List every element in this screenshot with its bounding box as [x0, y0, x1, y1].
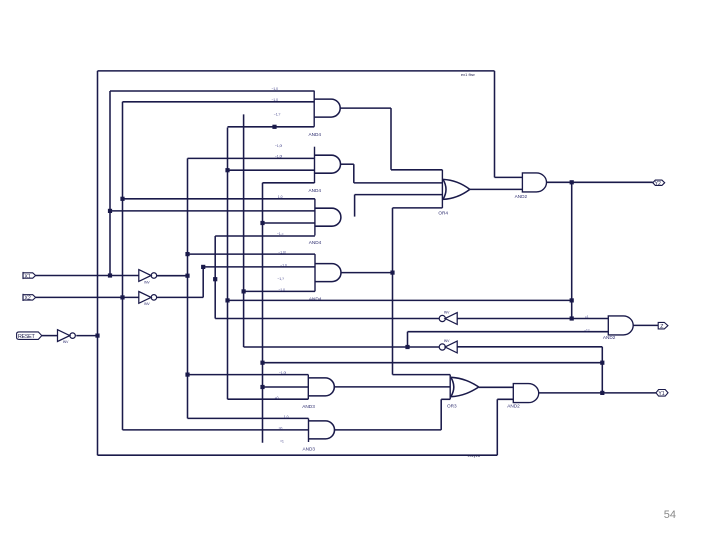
svg-text:=1: =1 [585, 315, 589, 319]
wire X2 to U3 pin1 [123, 198, 315, 200]
svg-text:Y2: Y2 [655, 181, 661, 187]
svg-text:AND2: AND2 [515, 194, 528, 199]
wire Y to U2 pin3 [228, 169, 315, 171]
svg-text:AND3: AND3 [302, 404, 315, 409]
svg-text:AND3: AND3 [303, 446, 316, 451]
wire Y1 to U3 pin3 [263, 222, 315, 224]
svg-text:ex1y1a: ex1y1a [468, 454, 481, 458]
junction X1 riser top branch [108, 209, 112, 213]
wire U1 output [340, 107, 391, 109]
junction X2' corner [201, 265, 205, 269]
page number [664, 509, 676, 521]
wire X2 port to INV-B [36, 296, 139, 298]
junction Y1 at feedback riser [600, 391, 604, 395]
wire X1' to U4 pin1 [188, 253, 316, 255]
junction U4 output at riser [390, 271, 394, 275]
svg-text:ex1 fbw: ex1 fbw [461, 72, 475, 77]
junction Y' tap on riser [213, 277, 217, 281]
output port Z [658, 322, 668, 330]
wire U5 output to OR3 pin2 [334, 386, 450, 388]
AND gate U9 (AND2, output Y2) [515, 173, 547, 199]
wire Z' left trunk [243, 114, 245, 347]
wire U6 output [335, 429, 442, 431]
wire X1' to U6 pin1 [188, 417, 309, 419]
wire X1 port to INV-A [36, 275, 139, 277]
wire U1 output drop [390, 108, 392, 170]
wire Y' riser [214, 236, 216, 319]
junction X1' to U5 [185, 373, 189, 377]
wire Y1 into INV-2 input [457, 346, 602, 348]
junction Y to U2 [225, 168, 229, 172]
svg-text:Y1: Y1 [658, 391, 664, 397]
junction X2 at riser base [120, 295, 124, 299]
junction Y mid at left riser [225, 298, 229, 302]
junction X1 at riser base [108, 273, 112, 277]
junction X1' at INV-A [185, 274, 189, 278]
wire Y1 cross run [263, 362, 603, 364]
wire to OR3 pin1 [393, 374, 451, 376]
svg-text:RESET: RESET [18, 334, 36, 340]
wire X2 to U1 pin2 [123, 101, 315, 103]
junction X2 to U3 [120, 197, 124, 201]
svg-text:~1,?: ~1,? [274, 112, 281, 116]
wire to OR4 pin4 [393, 207, 443, 209]
svg-text:INV: INV [144, 280, 150, 284]
output port Y1 [656, 390, 668, 398]
svg-text:~1=: ~1= [584, 328, 590, 332]
wire Y1 to U2 pin4 [263, 182, 315, 184]
wire X2' from INV-B [157, 296, 204, 298]
wire Z' to U10 pin2 [408, 331, 609, 333]
AND gate U10 (AND2, output Z) [603, 316, 633, 340]
wire Y1 to U5 pin2 [263, 386, 309, 388]
junction Y1 cross left end [260, 361, 264, 365]
svg-text:~1,0: ~1,0 [279, 288, 286, 292]
wire X2 riser [122, 102, 124, 430]
wire X1 to U3 pin2 [110, 210, 315, 212]
wire Y2 output [547, 181, 653, 183]
junction Z' to U4 [242, 289, 246, 293]
wire Y to U1 pin4 [228, 126, 315, 128]
wire Y1 feedback riser [601, 347, 603, 393]
wire RESET' bottom run [98, 454, 498, 456]
wire RESET port to inverter [42, 335, 58, 337]
wire RESET' inverter output [76, 335, 97, 337]
wire X1' from INV-A [157, 275, 188, 277]
svg-text:AND4: AND4 [309, 240, 322, 245]
svg-text:1,0: 1,0 [278, 195, 283, 199]
wire RESET' rise to U11 [496, 399, 498, 455]
wire stub near U3 output [354, 195, 356, 217]
wire U1 to OR4 pin1 [391, 169, 442, 171]
svg-text:1,0: 1,0 [284, 415, 289, 419]
junction Y1 cross at riser [600, 361, 604, 365]
AND gate U4 (AND4) [309, 254, 341, 302]
wire X2 to U6 pin2 [123, 429, 309, 431]
AND gate U5 (AND3) [302, 375, 334, 410]
wire Y feedback trunk [571, 182, 573, 319]
wire X1 riser [109, 91, 111, 276]
wire Y1 left trunk [262, 183, 264, 443]
wire X1' trunk [187, 158, 189, 418]
AND gate U6 (AND3) [303, 418, 335, 451]
wire U2 to OR4 pin2 [354, 182, 443, 184]
wire X2' to U4 pin2 [203, 266, 315, 268]
wire Y1 output [539, 392, 656, 394]
svg-text:=1: =1 [280, 440, 284, 444]
wire X2' riser [202, 267, 204, 298]
svg-text:OR3: OR3 [447, 404, 457, 409]
wire Z' from INV-2 [244, 346, 440, 348]
junction Y1 to U5 [260, 385, 264, 389]
wire U6 to OR3 pin3 [441, 398, 450, 400]
wire OR4 output to U9 pin2 [470, 188, 523, 190]
svg-text:=0: =0 [279, 426, 283, 430]
svg-text:~1,=: ~1,= [277, 232, 284, 236]
svg-text:X1: X1 [24, 274, 30, 280]
svg-text:~1,0: ~1,0 [272, 98, 279, 102]
junction Y at output [570, 180, 574, 184]
svg-text:INV: INV [444, 311, 450, 315]
wire Z' riser to U10 [407, 332, 409, 347]
svg-text:AND2: AND2 [603, 335, 616, 340]
junction Z' branch [405, 345, 409, 349]
wire U2 output drop [353, 164, 355, 183]
wire X1 to U1 pin1 [110, 90, 314, 92]
svg-text:~1,0: ~1,0 [272, 87, 279, 91]
OR gate U8 (OR3) [447, 375, 479, 409]
wire RESET' into U11 pin2 [497, 398, 513, 400]
junction Y1 to U3 [260, 221, 264, 225]
wire OR4pin4/OR3pin1 riser [392, 208, 394, 375]
AND gate U2 (AND4) [309, 147, 341, 193]
wire Y left riser [227, 128, 229, 400]
input port X2 [23, 294, 36, 302]
inverter INV-B (X2) [139, 292, 157, 307]
wire RESET' left trunk [97, 71, 99, 455]
wire RESET' into U9 pin1 [495, 176, 523, 178]
input port RESET [17, 332, 42, 340]
wire to OR4 pin3 [355, 194, 443, 196]
svg-text:Z: Z [660, 324, 663, 330]
svg-text:X2: X2 [24, 296, 30, 302]
wire Y mid branch [228, 299, 572, 301]
wire U10 output Z [633, 324, 658, 326]
svg-text:OR4: OR4 [438, 211, 448, 216]
wire U4 output [341, 272, 393, 274]
svg-text:INV: INV [444, 339, 450, 343]
inverter INV-A (X1) [139, 270, 157, 285]
junction Y mid branch [570, 298, 574, 302]
junction X1' to U4 [185, 252, 189, 256]
wire Y into INV-1 and U10 pin1 [457, 318, 608, 320]
svg-text:AND2: AND2 [507, 403, 520, 408]
wire Y' to U3 pin4 [215, 235, 315, 237]
output port Y2 [653, 180, 665, 187]
svg-text:~1,?: ~1,? [277, 277, 284, 281]
wire Y to U5 pin3 [228, 398, 309, 400]
wire U6 output rise [440, 399, 442, 430]
junction Y at INV-1 input [570, 316, 574, 320]
svg-text:~1,0!: ~1,0! [275, 155, 283, 159]
svg-text:~1,0!: ~1,0! [278, 251, 286, 255]
svg-text:~1,0!: ~1,0! [279, 371, 287, 375]
svg-text:AND4: AND4 [309, 188, 322, 193]
wire Z' to U4 pin4 [244, 290, 315, 292]
wire RESET' top run [98, 70, 495, 72]
wire U2 output [341, 163, 354, 165]
wire RESET' drop to U9 [494, 71, 496, 177]
inverter INV-R (RESET) [58, 330, 76, 345]
junction on U1 pin4 wire [272, 125, 276, 129]
wire OR3 output to U11 pin1 [479, 386, 514, 388]
AND gate U1 (AND4) [309, 91, 341, 137]
wire X1' to U5 pin1 [188, 374, 309, 376]
input port X1 [23, 272, 36, 280]
svg-text:AND4: AND4 [309, 132, 322, 137]
inverter INV-1 (Y feedback) [439, 311, 457, 325]
OR gate U7 (OR4) [438, 170, 469, 216]
svg-text:INV: INV [63, 340, 69, 344]
AND gate U11 (AND2, output Y1) [507, 384, 538, 409]
wire X1' to U2 pin2 [188, 157, 315, 159]
inverter INV-2 (Y1 feedback) [439, 339, 457, 353]
svg-text:=0: =0 [275, 396, 279, 400]
AND gate U3 (AND4) [309, 199, 341, 245]
wire Y' from INV-1 [215, 318, 439, 320]
svg-text:~1,0!: ~1,0! [275, 144, 283, 148]
svg-text:INV: INV [144, 302, 150, 306]
svg-text:~1,0: ~1,0 [280, 263, 287, 267]
junction RESET' at left trunk [95, 334, 99, 338]
